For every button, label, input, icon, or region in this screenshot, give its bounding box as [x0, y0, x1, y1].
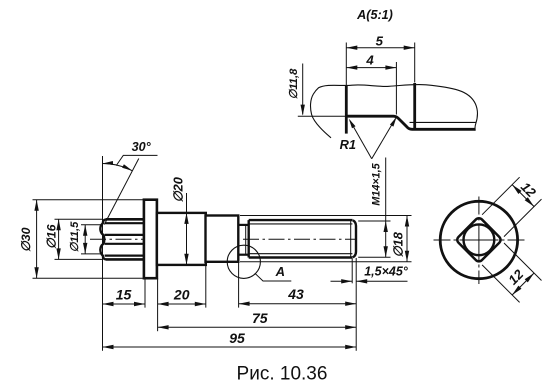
dim 95 — [103, 346, 357, 348]
thread end face with chamfer — [353, 220, 356, 257]
groove thin line — [245, 225, 247, 255]
dim 75 — [158, 326, 357, 328]
R1 leaders — [350, 121, 372, 159]
flange O30 — [144, 200, 157, 279]
svg-text:1,5×45°: 1,5×45° — [364, 264, 409, 278]
groove neck — [238, 224, 248, 226]
svg-text:30°: 30° — [132, 140, 152, 154]
svg-text:M14×1,5: M14×1,5 — [370, 162, 382, 205]
detail groove bottom extension — [298, 115, 347, 117]
dim 43 — [239, 303, 357, 305]
svg-text:∅30: ∅30 — [19, 227, 33, 252]
dim O11,5 — [84, 225, 86, 254]
thread OD extension lines — [358, 220, 390, 222]
detail thread start face — [413, 83, 416, 129]
dim M14x1,5 — [385, 158, 387, 258]
dim 5 — [346, 47, 414, 49]
side view centerlines — [434, 239, 525, 241]
cylinder O18 — [206, 216, 239, 262]
svg-text:A: A — [275, 264, 285, 279]
svg-text:∅11,5: ∅11,5 — [69, 221, 81, 252]
head (splined) outline — [106, 219, 145, 259]
dim O18 — [406, 216, 408, 262]
detail groove left wall — [345, 86, 348, 134]
detail thread root line — [410, 121, 477, 123]
dim 15 — [103, 303, 146, 305]
dim 1,5x45 — [331, 280, 353, 282]
cylinder O20 — [157, 213, 206, 265]
side view outer circle O30 — [440, 201, 517, 278]
30deg reference vertical extension — [102, 156, 104, 218]
30deg arc with arrows — [103, 163, 133, 170]
svg-text:∅20: ∅20 — [170, 177, 185, 202]
dim 20 — [158, 303, 206, 305]
svg-text:95: 95 — [229, 330, 245, 346]
side view square 12x12 — [456, 216, 503, 263]
svg-text:15: 15 — [116, 287, 132, 303]
dim 5 extensions — [345, 43, 347, 86]
svg-text:A(5:1): A(5:1) — [356, 8, 393, 22]
chamfer extension line — [351, 259, 353, 284]
leader A — [255, 273, 291, 281]
thread chamfer line — [350, 220, 352, 257]
dim O30 extension lines — [33, 199, 144, 201]
dim O16 extension lines — [55, 218, 104, 220]
svg-text:∅18: ∅18 — [391, 231, 406, 257]
detail groove bottom and ramp and crest — [345, 116, 475, 129]
svg-text:20: 20 — [173, 287, 190, 303]
head spline lines — [105, 222, 145, 224]
thread root lines — [249, 223, 353, 225]
dim O30 — [36, 200, 38, 279]
30deg leader — [116, 155, 157, 165]
dim 4 — [346, 67, 396, 69]
dim 4 extension — [395, 62, 397, 115]
dim 12 NE — [512, 185, 534, 207]
dim 12 SE — [512, 273, 534, 295]
O18 extension lines — [240, 215, 412, 217]
dim 12 NE extension lines — [482, 177, 519, 215]
centerline main axis — [90, 238, 357, 240]
svg-text:4: 4 — [365, 52, 374, 67]
detail circle A — [227, 245, 260, 278]
svg-text:43: 43 — [287, 286, 304, 302]
dim O11,5 extension lines — [81, 224, 101, 226]
dim O20 — [186, 193, 188, 265]
svg-text:∅16: ∅16 — [44, 224, 58, 249]
thread crest lines — [249, 219, 353, 221]
dim 12 SE extension lines — [504, 243, 542, 281]
svg-text:Рис. 10.36: Рис. 10.36 — [237, 364, 328, 385]
dim O16 — [58, 219, 60, 259]
svg-text:∅11,8: ∅11,8 — [288, 68, 300, 99]
dim O11,8 leader — [302, 64, 304, 115]
head left scalloped edge — [100, 219, 106, 259]
30deg slant line — [104, 159, 139, 225]
detail break outline blob — [311, 84, 478, 137]
svg-text:5: 5 — [376, 33, 384, 48]
bottom extension lines — [102, 218, 104, 351]
thread start face — [247, 220, 249, 257]
svg-text:75: 75 — [252, 310, 268, 326]
svg-text:R1: R1 — [340, 137, 356, 152]
side view inner circle — [464, 224, 495, 255]
